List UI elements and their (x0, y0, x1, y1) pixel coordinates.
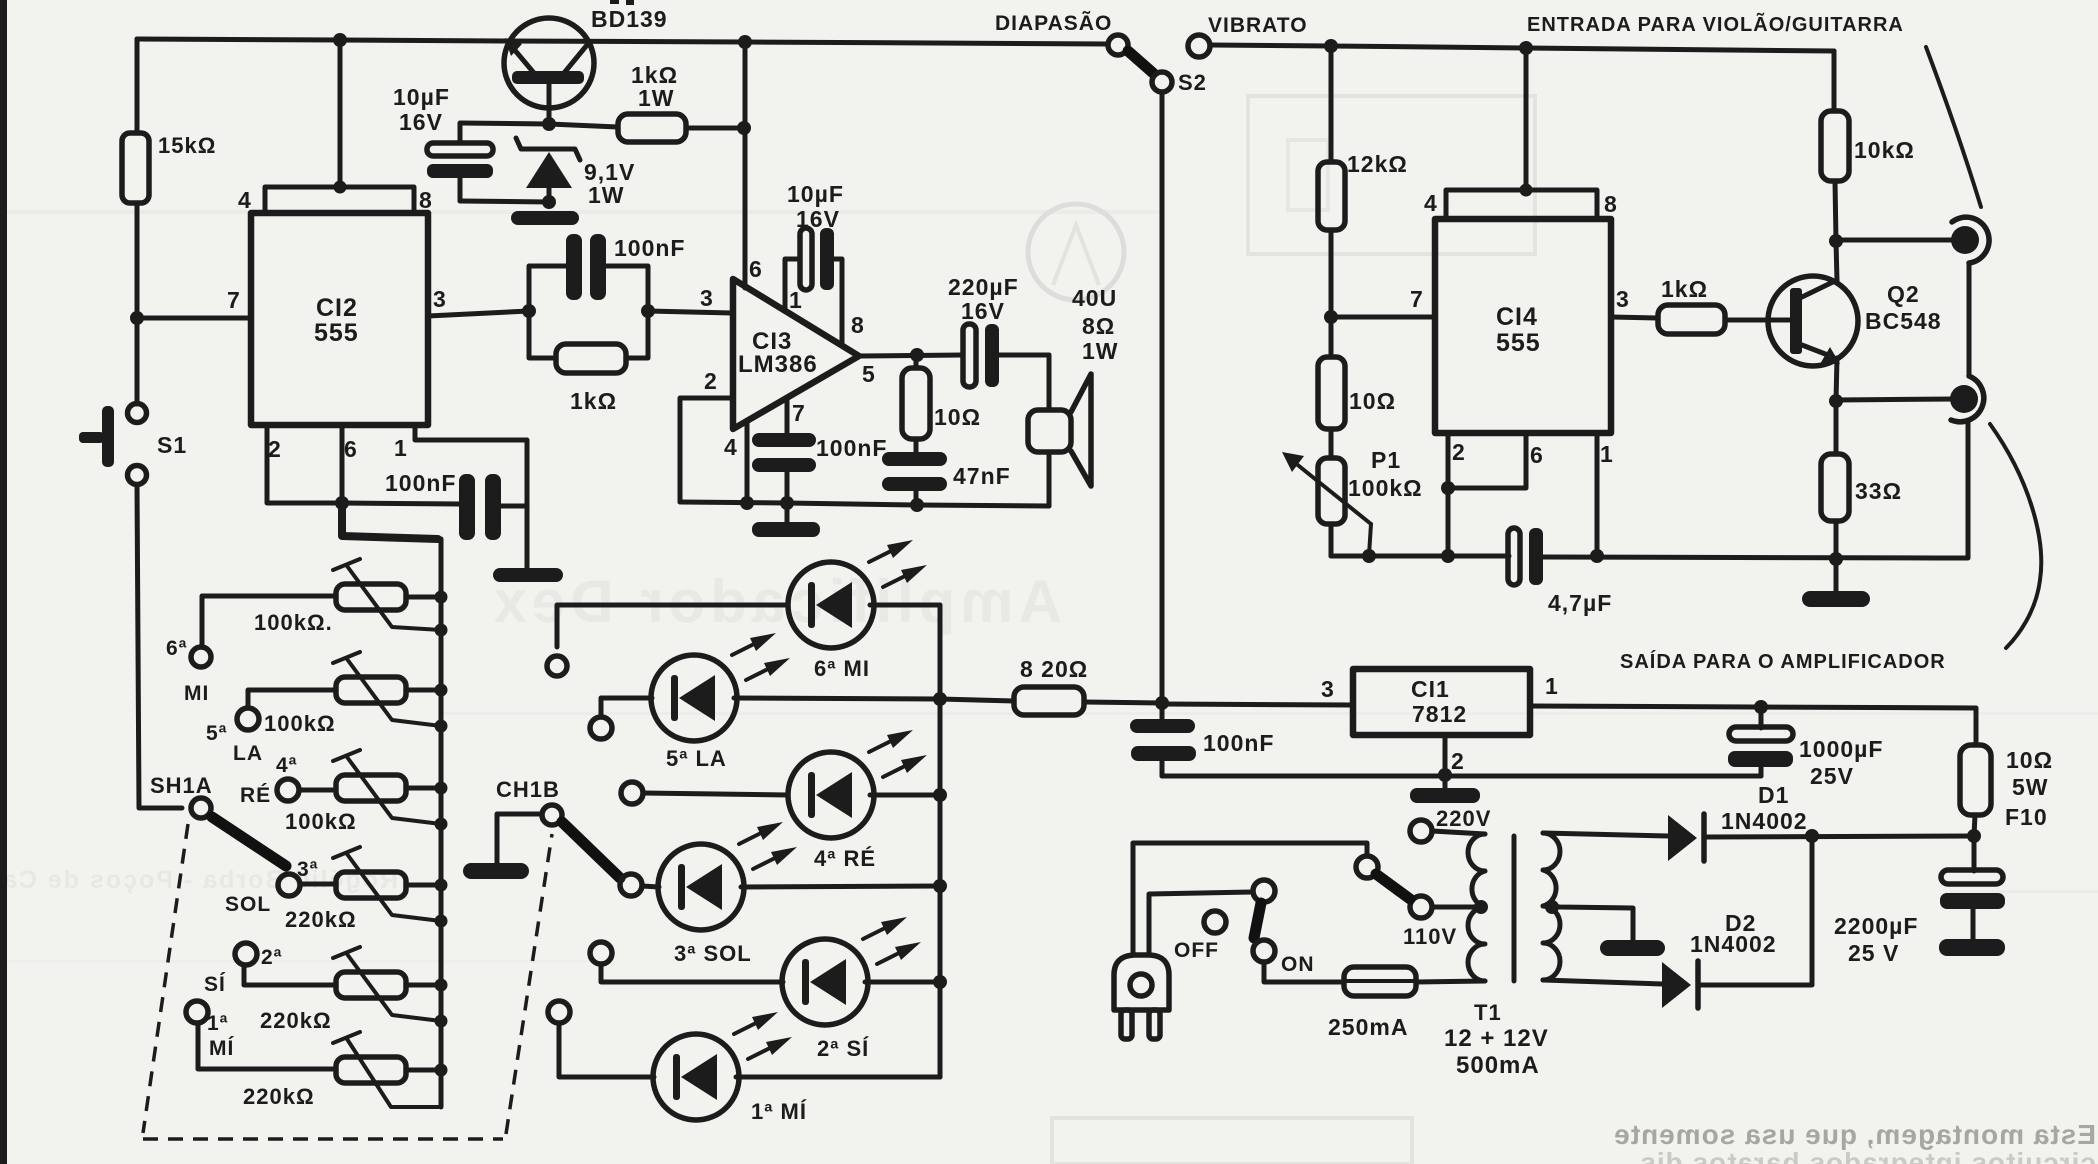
svg-text:4ª RÉ: 4ª RÉ (814, 846, 876, 871)
svg-text:T1: T1 (1474, 1000, 1502, 1025)
resistor 12kΩ (1318, 151, 1408, 230)
pin label 7 (CI2) (227, 287, 241, 313)
node: bus dot 3ª (933, 879, 947, 893)
svg-text:220kΩ: 220kΩ (260, 1008, 332, 1033)
node: 2200µF junction (1967, 829, 1981, 843)
svg-text:1ª: 1ª (207, 1012, 228, 1035)
node: CI4 pin7 junction (1324, 310, 1338, 324)
switch SH1A lever (212, 817, 286, 866)
resistor 820Ω (1014, 656, 1088, 715)
ground (zener) (511, 211, 579, 225)
wire: CH1B pole to ground (497, 814, 542, 863)
svg-text:OFF: OFF (1174, 939, 1219, 962)
regulator CI1 7812 (1353, 669, 1530, 735)
node: pin7 junction on left rail (130, 311, 144, 325)
wire: V+ top rail right span (1210, 45, 1834, 51)
wire: S2 vibrato feed (long vertical) (1160, 92, 1165, 703)
fuse 250mA (1328, 967, 1416, 1040)
wire: emitter drop (1836, 358, 1837, 401)
svg-text:2200µF: 2200µF (1834, 913, 1918, 939)
svg-text:100kΩ: 100kΩ (285, 809, 357, 834)
wire: CI2 pin 2 drop (267, 425, 342, 503)
svg-text:SOL: SOL (225, 893, 271, 916)
mains plug (1114, 955, 1169, 1039)
wire: 4ª LED cathode to bus (870, 793, 940, 798)
wire: CI4 pin 7 (1331, 315, 1435, 320)
svg-text:Q2: Q2 (1887, 281, 1920, 307)
svg-text:6: 6 (749, 256, 763, 282)
node 6ª contact (CH1B) (547, 656, 567, 676)
pin label 3 (CI4) (1616, 286, 1630, 312)
wire: 3ª LED cathode to bus (741, 886, 940, 887)
svg-text:LA: LA (233, 742, 263, 765)
svg-text:Esta montagem, que usa somente: Esta montagem, que usa somente (1613, 1119, 2096, 1150)
pin label 3 (CI3) (700, 285, 714, 311)
resistor 10Ω (CI4) (1318, 317, 1396, 429)
wire: base resistor to Q2 (1725, 318, 1791, 323)
svg-text:MI: MI (184, 682, 209, 705)
wire: LM386 ground rail (680, 502, 1049, 506)
wire: 4ª LED anode to contact (643, 793, 788, 795)
pin label 4 (CI3) (724, 434, 738, 460)
svg-text:D1: D1 (1758, 782, 1789, 808)
diode D2 1N4002 (1662, 910, 1777, 1008)
svg-text:12 + 12V: 12 + 12V (1444, 1025, 1549, 1052)
node: pin7 junction (780, 496, 794, 510)
LED 6ª MI (788, 540, 927, 681)
wire: 6ª LED cathode to bus top (870, 603, 940, 608)
node: BD139 emitter junction (542, 117, 556, 131)
resistor 10kΩ (1821, 111, 1915, 181)
wire: CI4 bottom ground rail (1331, 421, 1968, 558)
node: CI4 bracket junction (1520, 184, 1533, 197)
svg-text:F10: F10 (2005, 804, 2048, 830)
svg-text:BD139: BD139 (591, 6, 668, 32)
wire: trimmer5 to 2ª contact (244, 965, 336, 985)
svg-text:1ª MÍ: 1ª MÍ (751, 1099, 807, 1124)
LED 5ª LA (651, 633, 790, 771)
wire: 1ª LED anode to contact (559, 1023, 654, 1077)
wire: 5ª LED anode to contact (601, 698, 652, 717)
svg-text:7812: 7812 (1412, 701, 1467, 727)
wire: secondary bottom to D2 (1543, 980, 1662, 984)
node: rail junction over CI4 (1519, 41, 1533, 55)
wire: CI1 pin 1 output rail (1530, 706, 1976, 745)
svg-text:7: 7 (792, 400, 806, 426)
pin label 8 (CI4) (1604, 191, 1618, 217)
node: 47nF foot junction (910, 498, 924, 512)
svg-text:circuitos integrados baratos d: circuitos integrados baratos dis (1639, 1147, 2096, 1164)
node: bus/820 junction (933, 692, 947, 706)
svg-text:CH1B: CH1B (496, 777, 560, 802)
svg-text:100nF: 100nF (614, 235, 685, 261)
node: bracket centre junction (334, 181, 347, 194)
transformer T1 core (1512, 836, 1517, 981)
wire: 15k bottom to S1 (135, 203, 140, 404)
node 2ª contact (CH1B) (590, 942, 612, 964)
wire: 2ª LED anode to contact (601, 965, 783, 982)
connector: output jack tip (1950, 376, 1984, 422)
LED 1ª MÍ (653, 1012, 807, 1124)
node: collector junction (1829, 234, 1843, 248)
svg-text:100kΩ: 100kΩ (264, 711, 336, 736)
wire: 3ª LED anode to contact (642, 886, 659, 887)
wire: trimmer1 to 6ª contact (202, 596, 336, 647)
svg-text:15kΩ: 15kΩ (158, 133, 216, 158)
svg-text:12kΩ: 12kΩ (1347, 151, 1408, 177)
svg-text:3ª SOL: 3ª SOL (674, 941, 752, 966)
wire: CI4 pin 3 to base resistor (1611, 317, 1658, 318)
svg-text:10Ω: 10Ω (934, 404, 981, 430)
svg-text:5W: 5W (2012, 774, 2049, 800)
capacitor 2200µF 25V (1834, 836, 2005, 966)
svg-text:1kΩ: 1kΩ (570, 388, 617, 414)
svg-text:3: 3 (700, 285, 714, 311)
label SAÍDA PARA O AMPLIFICADOR (1620, 650, 1946, 673)
svg-text:16V: 16V (399, 109, 443, 135)
svg-text:VIBRATO: VIBRATO (1208, 14, 1308, 37)
transistor Q1 BD139 (504, 0, 668, 124)
svg-text:1: 1 (394, 435, 408, 461)
svg-text:1: 1 (1545, 673, 1559, 699)
wire: D1 cathode rail (1707, 836, 1974, 837)
svg-text:3ª: 3ª (297, 858, 318, 881)
pin label 6 (CI3) (749, 256, 763, 282)
node: bus dot 2ª (933, 975, 947, 989)
svg-text:SÍ: SÍ (204, 973, 226, 996)
svg-text:100kΩ: 100kΩ (1348, 475, 1423, 501)
label ENTRADA PARA VIOLÃO/GUITARRA (1527, 13, 1904, 36)
svg-text:LM386: LM386 (738, 351, 818, 378)
svg-text:3: 3 (433, 286, 447, 312)
node: D1/D2 junction (1805, 829, 1819, 843)
wire: 12V node to CI1 pin 3 (1162, 704, 1353, 705)
wire: 1ª LED cathode to bus bottom (736, 1075, 940, 1080)
resistor 1kΩ (parallel) (529, 311, 648, 414)
wire: CI4 pins 2-6 link (1448, 433, 1526, 556)
IC CI4 555 box (1435, 219, 1611, 433)
potentiometer P1 100kΩ (1282, 429, 1423, 556)
svg-text:250mA: 250mA (1328, 1014, 1408, 1040)
svg-text:2: 2 (268, 436, 282, 462)
wire: CI4 pins 4-8 bracket (1446, 48, 1597, 219)
trimmer 220kΩ (2nd string) (260, 947, 441, 1033)
node: trimmer2 bus dots (435, 684, 448, 733)
label 220V tap (1436, 806, 1491, 831)
svg-text:1N4002: 1N4002 (1690, 931, 1777, 957)
wire: ground rail under CI1 (1162, 774, 1761, 779)
svg-text:4,7µF: 4,7µF (1548, 590, 1612, 616)
wire: V+ top rail left span (137, 39, 1107, 44)
pin label 3 (CI1) (1321, 676, 1335, 702)
capacitor 100nF (CI2 pin1) (342, 470, 527, 540)
svg-text:555: 555 (314, 319, 359, 347)
svg-text:16V: 16V (796, 206, 840, 232)
switch: on/off S3 (1174, 880, 1315, 976)
svg-text:100nF: 100nF (816, 435, 887, 461)
wire: D2 cathode up to D1 rail (1701, 836, 1812, 985)
wire: 5ª LED cathode row to 820Ω (734, 698, 1014, 701)
svg-text:6ª: 6ª (166, 637, 187, 660)
dashed gang link (SH1A-CH1B) (143, 824, 552, 1139)
wire: CI2 pin 6 drop (340, 425, 345, 503)
svg-text:4: 4 (238, 187, 252, 213)
node 5ª contact (CH1B) (590, 717, 612, 739)
wire: 12k to pin7 node (1329, 230, 1334, 317)
resistor 10Ω 5W F10 (1960, 745, 2053, 836)
capacitor 4,7µF (1508, 528, 1612, 616)
wire: to LM386 pin 3 (648, 311, 732, 313)
node 5ª LA contact (SH1A) (206, 708, 263, 765)
wire: trimmer4 to 3ª contact (301, 882, 336, 887)
resistor 33Ω (1821, 401, 1902, 559)
pin label 4 (CI4) (1424, 190, 1438, 216)
svg-text:CI4: CI4 (1496, 303, 1538, 331)
svg-text:3: 3 (1321, 676, 1335, 702)
wire: ON contact to fuse (1264, 962, 1344, 982)
wire: pin 4 drop (745, 421, 750, 503)
trimmer 220kΩ (3rd string) (285, 847, 441, 932)
svg-text:2ª SÍ: 2ª SÍ (817, 1036, 869, 1061)
svg-text:CI2: CI2 (316, 294, 358, 322)
node: feedback right junction (641, 304, 655, 318)
capacitor 10µF 16V (LM386 gain) (785, 181, 844, 345)
svg-text:1: 1 (1600, 441, 1614, 467)
wire: plug to on/off switch (1149, 892, 1252, 955)
pushbutton S1 (79, 404, 187, 485)
pin label 2 (CI2) (268, 436, 282, 462)
node 1ª contact (CH1B) (548, 1001, 570, 1023)
svg-text:16V: 16V (961, 298, 1005, 324)
svg-text:Amplificador Dex: Amplificador Dex (489, 568, 1062, 635)
LED 4ª RÉ (788, 730, 927, 871)
resistor 15kΩ (122, 133, 216, 203)
pin label 7 (CI3) (792, 400, 806, 426)
svg-text:MÍ: MÍ (209, 1037, 234, 1060)
wire: 820Ω to 12V node (1084, 702, 1162, 703)
wire: trimmer3 to 4ª contact (300, 788, 336, 793)
svg-text:1W: 1W (588, 182, 625, 208)
trimmer 100kΩ (5th string) (264, 652, 441, 736)
wire: CI4 pin 1 drop (1595, 433, 1600, 556)
ground (Q2 emitter leg) (1802, 559, 1870, 607)
svg-text:10kΩ: 10kΩ (1854, 137, 1915, 163)
ground (2200µF) (1939, 939, 2005, 956)
node: right vertical junction (737, 121, 751, 135)
trimmer 220kΩ (1st string) (243, 1032, 441, 1109)
svg-text:S1: S1 (157, 432, 187, 458)
wire: trimmer6 to 1ª contact (198, 1023, 336, 1069)
capacitor 100nF (12V rail) (1130, 703, 1274, 776)
capacitor 10µF 16V (393, 84, 493, 201)
node: pin4 junction (740, 496, 754, 510)
svg-text:S2: S2 (1178, 70, 1207, 95)
LED 2ª SÍ (782, 917, 921, 1061)
node: bus dot 4ª (933, 788, 947, 802)
wire: emitter to output jack (1836, 399, 1955, 400)
pin label 4 (CI2) (238, 187, 252, 213)
pin label 8 (CI3) (851, 312, 865, 338)
svg-text:4: 4 (724, 434, 738, 460)
svg-text:7: 7 (1410, 286, 1424, 312)
pin label 6 (CI4) (1530, 442, 1544, 468)
wire: emitter node horizontal (460, 123, 618, 127)
node: pins2/6 junction (1441, 481, 1455, 495)
node 4ª RÉ contact (SH1A) (240, 754, 299, 807)
transformer T1 secondary (1444, 833, 1633, 1079)
capacitor 100nF (CI2-LM386 coupling) (529, 234, 685, 311)
wire: pin 2 loop (680, 398, 733, 502)
wire: trimmer2 to 5ª contact (248, 690, 336, 708)
svg-text:220kΩ: 220kΩ (285, 907, 357, 932)
node 3ª contact (CH1B) (620, 874, 642, 896)
node: trimmer1 bus dots (435, 591, 448, 637)
node: bottom rail dots (1362, 549, 1604, 563)
node: 12V junction (1155, 696, 1169, 710)
svg-text:555: 555 (1496, 329, 1541, 357)
wire: CI2 pin 3 output (428, 311, 529, 316)
svg-text:P1: P1 (1371, 447, 1401, 473)
node: trimmer3 bus dots (435, 782, 448, 831)
pin label 1 (CI4) (1600, 441, 1614, 467)
svg-text:BC548: BC548 (1865, 308, 1942, 334)
wire: trimmer common bus (439, 539, 444, 1107)
svg-text:10µF: 10µF (393, 84, 450, 110)
svg-text:2: 2 (1451, 748, 1465, 774)
svg-text:6: 6 (344, 436, 358, 462)
pin label 7 (CI4) (1410, 286, 1424, 312)
speaker 40U 8Ω 1W (1028, 285, 1119, 506)
pin label 2 (CI1) (1451, 748, 1465, 774)
capacitor 100nF (pin 7 bypass) (752, 398, 887, 503)
svg-text:40U: 40U (1072, 285, 1117, 311)
svg-text:10Ω: 10Ω (2006, 747, 2053, 773)
wire: CI2 pin 7 (137, 316, 251, 321)
svg-text:ON: ON (1281, 953, 1315, 976)
svg-text:8: 8 (419, 187, 433, 213)
svg-text:8 20Ω: 8 20Ω (1020, 656, 1088, 682)
pin label 8 (CI2) (419, 187, 433, 213)
node 1ª MÍ contact (SH1A) (186, 1001, 234, 1060)
svg-text:100nF: 100nF (385, 470, 456, 496)
LED 3ª SOL (658, 822, 797, 966)
svg-text:8: 8 (1604, 191, 1618, 217)
node: feedback left junction (522, 304, 536, 318)
trimmer 100kΩ (4th string) (285, 750, 441, 834)
svg-text:10µF: 10µF (787, 181, 844, 207)
wire: 2ª LED cathode to bus (865, 980, 940, 985)
node: 33Ω foot junction (1829, 552, 1843, 566)
svg-text:4ª: 4ª (276, 754, 297, 777)
wire: V+ rail corner to 10k (1832, 51, 1837, 111)
pin label 6 (CI2) (344, 436, 358, 462)
pin label 2 (CI3) (704, 368, 718, 394)
wire: LED common bus (938, 605, 943, 1077)
svg-text:220kΩ: 220kΩ (243, 1084, 315, 1109)
svg-text:1W: 1W (638, 85, 675, 111)
resistor 1kΩ 1W (618, 62, 686, 142)
node 4ª contact (CH1B) (621, 782, 643, 804)
wire: CI2 pin 1 path (415, 425, 527, 506)
trimmer 100kΩ (6th string) (254, 559, 441, 635)
ground (CI1 pin2) (1410, 775, 1480, 803)
svg-text:1N4002: 1N4002 (1721, 808, 1808, 834)
svg-text:1kΩ: 1kΩ (1661, 276, 1708, 302)
wire: 10k to collector (1835, 181, 1837, 281)
ground (T1 centre tap) (1600, 940, 1665, 956)
svg-text:7: 7 (227, 287, 241, 313)
resistor 10Ω (zobel) (902, 355, 981, 453)
svg-text:10Ω: 10Ω (1349, 388, 1396, 414)
svg-text:2: 2 (704, 368, 718, 394)
switch SH1A pole (150, 773, 213, 818)
wire: fuse to primary bottom (1416, 981, 1485, 982)
wire: 10µF bottom to zener anode (460, 201, 549, 202)
node 3ª SOL contact (SH1A) (225, 858, 318, 916)
capacitor 220µF 16V (948, 274, 1049, 387)
transistor Q2 BC548 (1768, 276, 1942, 366)
wire: secondary top to D1 (1543, 833, 1668, 836)
node: pin2/6 junction (335, 496, 349, 510)
wire: CI1 pin 2 stub (1443, 735, 1448, 775)
pin label 1 (CI1) (1545, 673, 1559, 699)
wire: rail corner down to 15k (135, 39, 140, 133)
ground (CI2 pin1 cap) (493, 506, 563, 582)
svg-text:500mA: 500mA (1456, 1052, 1540, 1079)
wire: collector to input jack (1836, 238, 1956, 243)
svg-text:1W: 1W (1082, 338, 1119, 364)
switch CH1B lever (562, 822, 620, 878)
wire: jack sleeve link (1967, 263, 1972, 376)
pin label 1 (CI2) (394, 435, 408, 461)
svg-text:4: 4 (1424, 190, 1438, 216)
wire: LM386 pin 5 output (859, 355, 963, 356)
wire: 12k branch drop (1329, 46, 1334, 162)
node: rail junction right of BD139 (738, 35, 752, 49)
svg-text:33Ω: 33Ω (1855, 478, 1902, 504)
svg-text:5ª: 5ª (206, 722, 227, 745)
node: zener anode junction (542, 195, 556, 209)
svg-text:DIAPASÃO: DIAPASÃO (995, 12, 1112, 35)
wire: pin6 node to trimmer bus (thick) (342, 503, 438, 539)
ground (LM386) (752, 503, 820, 537)
node: pin2 ground junction (1438, 768, 1452, 782)
wire: 1k1W to right vertical (686, 126, 744, 131)
op-amp CI3 LM386 (733, 279, 859, 429)
svg-text:6: 6 (1530, 442, 1544, 468)
wire: S1 down to SH1A pole (137, 485, 182, 808)
page left border (0, 0, 7, 1164)
pin label 2 (CI4) (1452, 439, 1466, 465)
svg-text:2: 2 (1452, 439, 1466, 465)
op IC CI2 555 box (251, 213, 428, 425)
svg-text:100nF: 100nF (1203, 730, 1274, 756)
wire: plug to voltage selector (1133, 843, 1367, 955)
node: rail junction over CI2 (333, 33, 347, 47)
svg-text:25 V: 25 V (1848, 940, 1899, 966)
svg-text:100kΩ.: 100kΩ. (254, 610, 333, 635)
wire: jack leader curve top (1926, 47, 1981, 207)
node: trimmer5 bus dots (435, 979, 448, 1028)
wire: 6ª LED anode to contact (557, 605, 788, 647)
svg-text:220V: 220V (1436, 806, 1491, 831)
connector: input jack tip (1951, 217, 1989, 263)
pin label 3 (CI2) (433, 286, 447, 312)
svg-text:RÉ: RÉ (240, 784, 271, 807)
transformer T1 primary (1403, 820, 1488, 981)
switch CH1B pole (496, 777, 562, 825)
svg-text:6ª MI: 6ª MI (814, 656, 870, 681)
